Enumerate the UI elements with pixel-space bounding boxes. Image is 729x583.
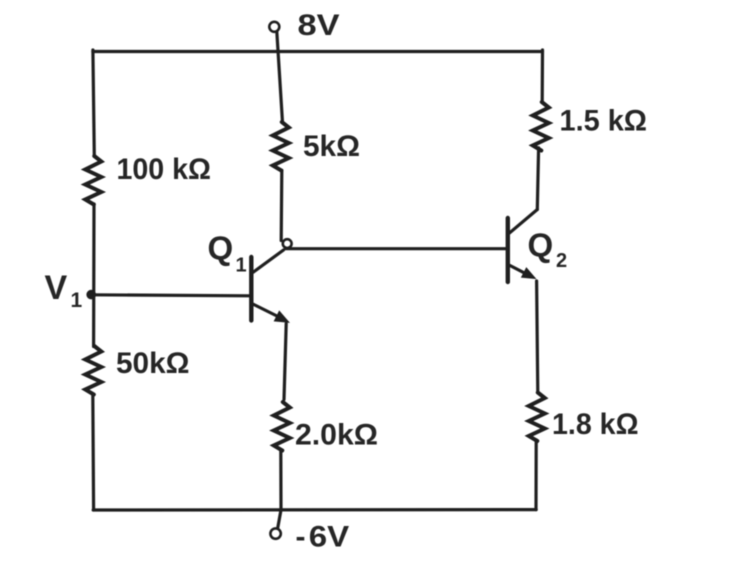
svg-text:1: 1 [71, 289, 83, 312]
wire Q1 emitter diagonal [253, 304, 281, 318]
wire top rail [93, 50, 543, 53]
svg-text:1.8 kΩ: 1.8 kΩ [552, 408, 639, 441]
resistor R5 5kOhm [273, 122, 289, 171]
svg-text:100 kΩ: 100 kΩ [117, 153, 212, 186]
transistor Q2 base bar [506, 218, 510, 282]
svg-text:Q: Q [528, 227, 554, 264]
wire left rail lower [91, 394, 95, 510]
svg-text:-: - [296, 521, 306, 554]
svg-text:8V: 8V [298, 9, 340, 42]
svg-text:2.0kΩ: 2.0kΩ [295, 419, 378, 452]
transistor Q1 base bar [249, 257, 253, 321]
wire right rail lower [534, 440, 537, 510]
transistor Q2 emitter diagonal [509, 265, 528, 275]
svg-text:1: 1 [236, 255, 247, 277]
resistor R3 1.5 kOhm [533, 102, 549, 151]
wire 2.0k to bottom rail [279, 450, 282, 510]
wire Q1 collector diagonal [253, 250, 284, 273]
wire bottom rail [93, 508, 536, 512]
transistor Q2 emitter arrowhead [522, 268, 536, 279]
resistor R2 50kOhm [85, 346, 101, 395]
wire Q2 collector vertical [537, 148, 538, 210]
wire Q2 emitter vertical [537, 281, 538, 393]
svg-text:6V: 6V [309, 521, 349, 554]
resistor R6 2.0kOhm [274, 402, 290, 451]
wire -6V stub [278, 510, 281, 529]
svg-text:2: 2 [556, 250, 567, 272]
svg-text:5kΩ: 5kΩ [303, 130, 360, 163]
wire Q2 collector diagonal [509, 210, 538, 234]
node V1 junction dot [86, 290, 96, 300]
transistor Q1 emitter arrowhead [274, 311, 288, 322]
terminal 8V circle [269, 22, 279, 32]
svg-text:Q: Q [208, 230, 234, 267]
wire left rail middle [92, 204, 96, 347]
svg-text:1.5 kΩ: 1.5 kΩ [560, 105, 648, 138]
svg-text:V: V [45, 269, 68, 307]
node Q1 collector bubble [283, 239, 292, 248]
wire base net Q1 to Q2 [286, 247, 507, 250]
wire Q1 base from V1 [92, 295, 250, 296]
wire left rail upper [93, 50, 94, 157]
wire Q1 emitter vertical [284, 324, 286, 400]
resistor R4 1.8 kOhm [529, 393, 545, 442]
wire right rail upper [541, 50, 544, 103]
wire 8V feed [277, 32, 283, 123]
resistor R1 100 kOhm [85, 156, 101, 205]
terminal -6V circle [270, 528, 280, 538]
wire 5k to Q1 collector node [280, 170, 284, 240]
svg-text:50kΩ: 50kΩ [116, 347, 190, 380]
